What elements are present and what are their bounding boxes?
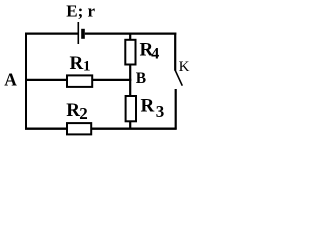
resistor R3 bbox=[126, 96, 136, 121]
wire: bottom horizontal bbox=[25, 128, 177, 130]
battery E;r short thick plate bbox=[81, 29, 85, 39]
svg-text:R: R bbox=[66, 100, 80, 121]
resistor R1 bbox=[67, 75, 92, 87]
svg-text:B: B bbox=[136, 70, 146, 87]
svg-text:4: 4 bbox=[151, 45, 159, 62]
svg-text:3: 3 bbox=[156, 102, 165, 121]
svg-text:A: A bbox=[4, 69, 17, 89]
svg-text:E; r: E; r bbox=[66, 2, 95, 21]
svg-text:R: R bbox=[141, 95, 155, 116]
svg-text:R: R bbox=[70, 53, 84, 74]
resistor R4 bbox=[125, 40, 135, 65]
battery E;r long plate bbox=[77, 22, 79, 44]
wire: R4/R3 branch vertical bbox=[129, 33, 131, 129]
wire: left vertical A-branch bbox=[25, 33, 27, 130]
wire: top right segment from battery to top-right corner bbox=[85, 32, 177, 34]
wire: top left segment to battery bbox=[25, 32, 78, 34]
svg-text:1: 1 bbox=[83, 59, 91, 75]
resistor R2 bbox=[67, 123, 91, 134]
wire: right vertical lower segment below switch bbox=[175, 89, 177, 130]
svg-text:K: K bbox=[179, 59, 190, 75]
svg-text:2: 2 bbox=[79, 104, 88, 123]
wire: right vertical upper segment to switch bbox=[174, 33, 176, 71]
switch K blade bbox=[175, 70, 182, 85]
wire: middle branch through R1 bbox=[25, 79, 131, 81]
